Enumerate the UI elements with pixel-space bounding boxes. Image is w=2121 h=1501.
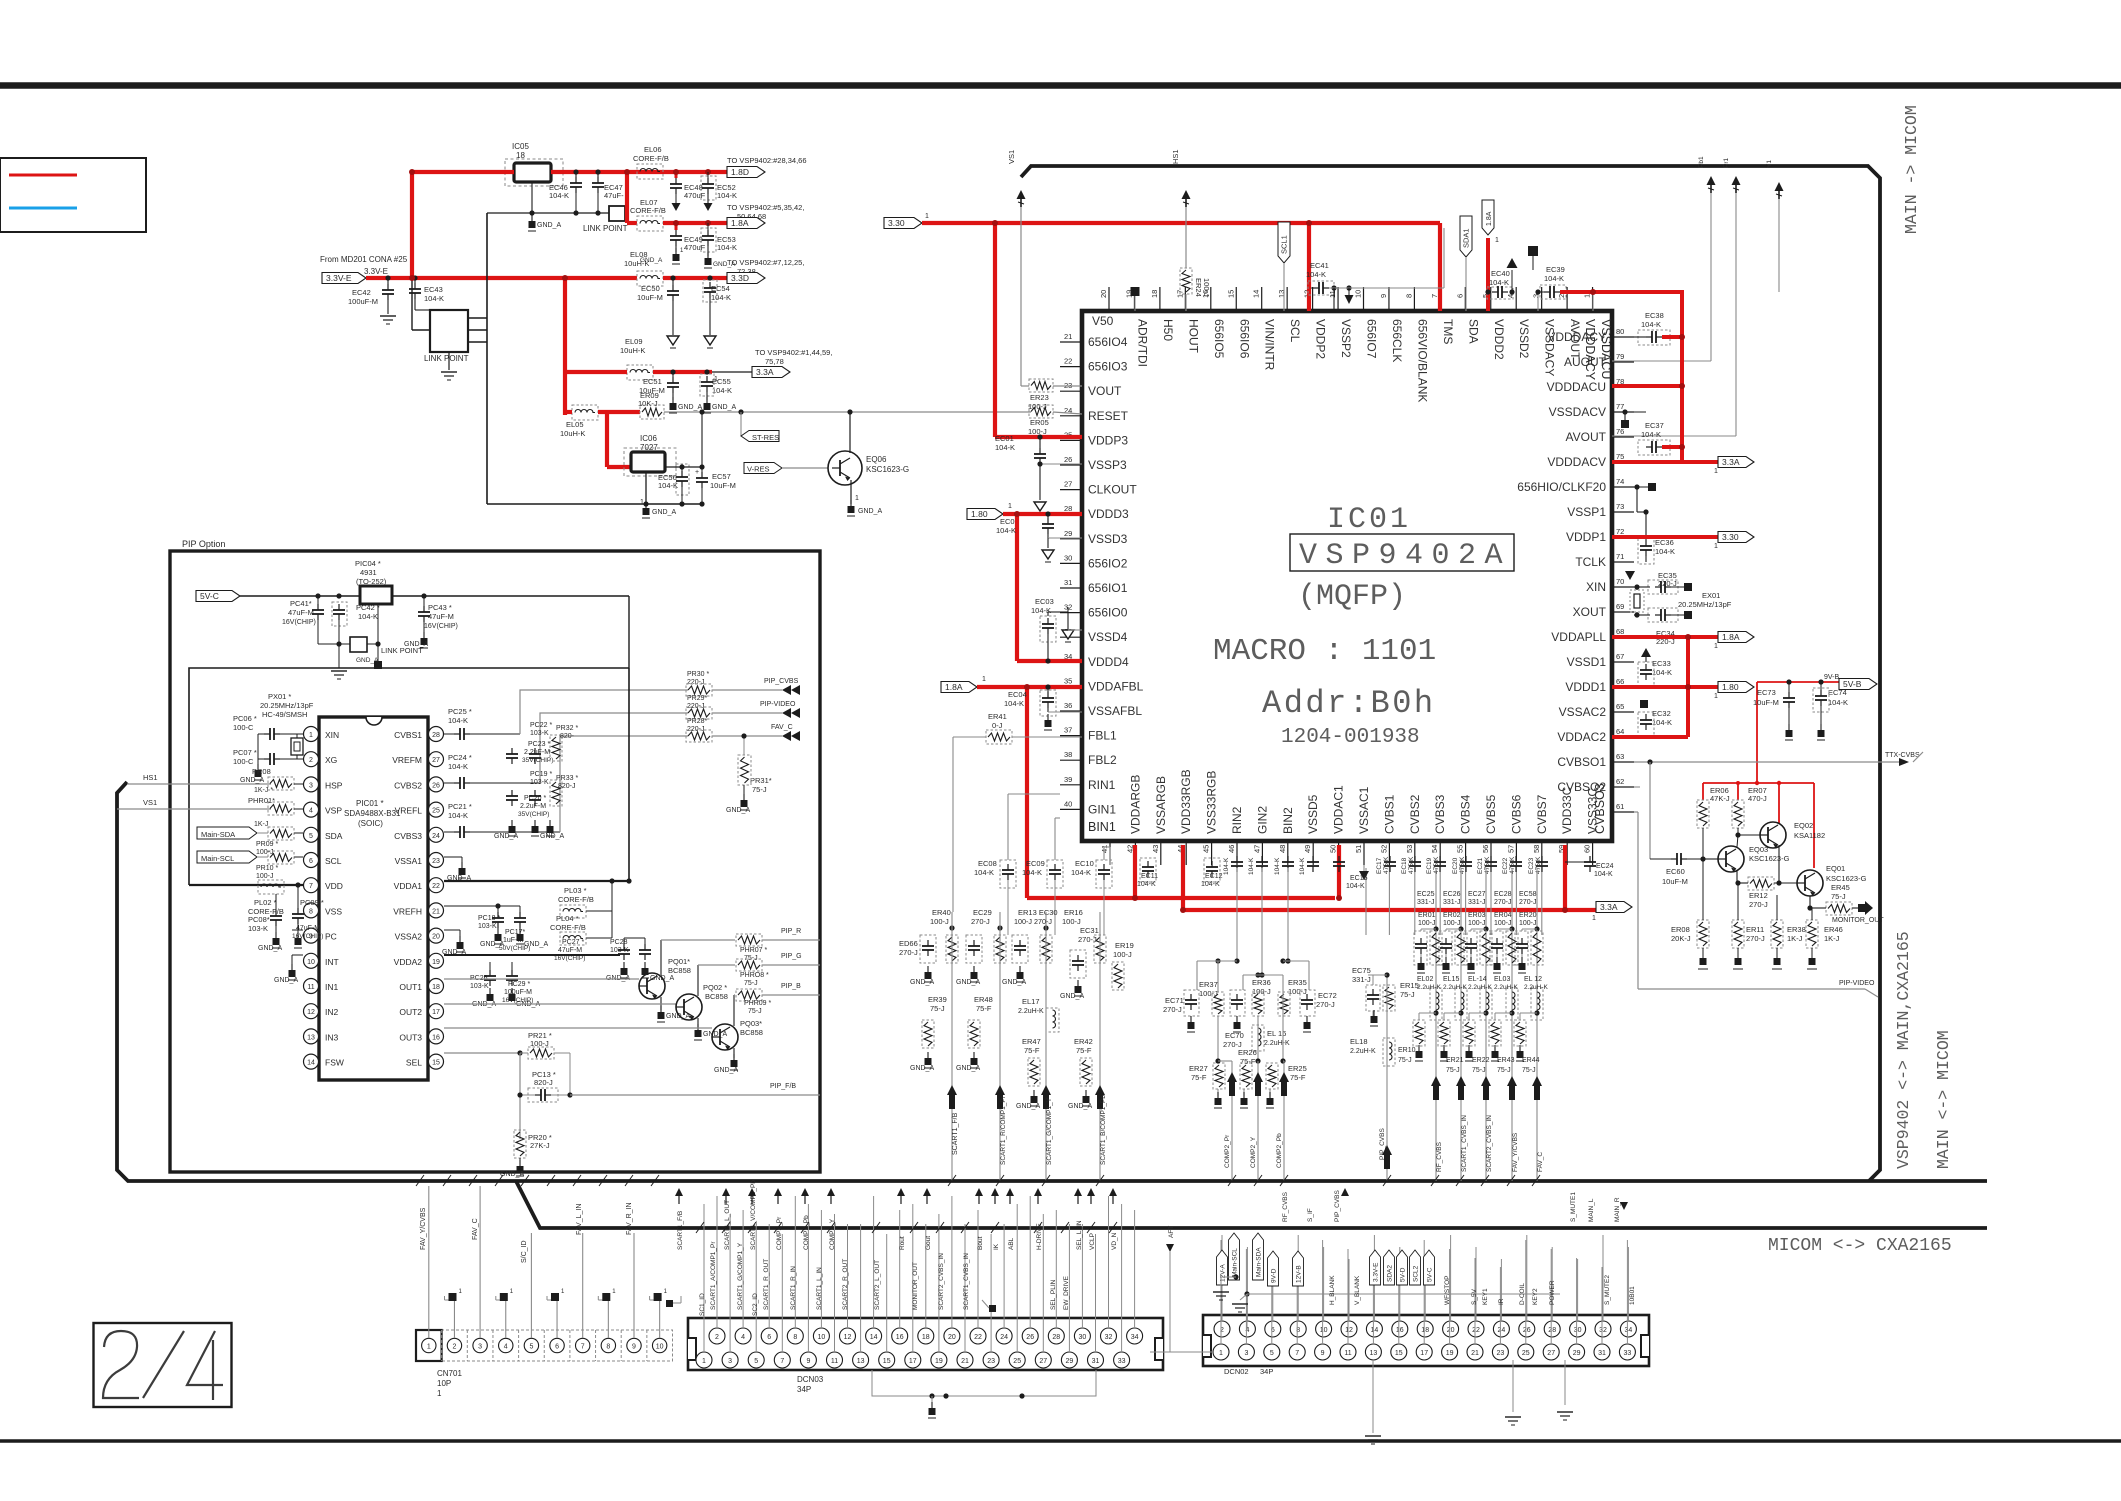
svg-text:100-J: 100-J	[1113, 950, 1132, 959]
svg-text:SCART1_R_OUT: SCART1_R_OUT	[763, 1259, 770, 1310]
svg-text:ER45: ER45	[1831, 883, 1850, 892]
svg-text:PIP-VIDEO: PIP-VIDEO	[760, 701, 796, 708]
svg-text:31: 31	[1598, 1350, 1606, 1357]
svg-text:71: 71	[1616, 552, 1624, 561]
svg-text:VS1: VS1	[143, 798, 157, 807]
svg-text:656IO4: 656IO4	[1088, 335, 1128, 349]
svg-text:GND_A: GND_A	[726, 807, 750, 814]
svg-text:EW_DRIVE: EW_DRIVE	[1063, 1275, 1070, 1310]
svg-text:MAIN_L: MAIN_L	[1588, 1198, 1595, 1222]
IC01 pin 35 VDDAFBL	[1060, 685, 1082, 687]
svg-text:29: 29	[1066, 1358, 1074, 1365]
pin49 arrow	[1359, 871, 1369, 880]
svg-text:+: +	[695, 469, 699, 476]
svg-text:SCART1_R/COMP1_Pr: SCART1_R/COMP1_Pr	[1000, 1095, 1007, 1165]
svg-text:TO VSP9402:#28,34,66: TO VSP9402:#28,34,66	[727, 156, 807, 165]
DCN03 pin 11	[827, 1352, 843, 1368]
IC01 pin 69 XOUT	[1612, 611, 1634, 613]
resistor ER05	[1029, 405, 1053, 418]
svg-text:VSSD1: VSSD1	[1567, 655, 1607, 669]
DCN02 pin 2	[1214, 1321, 1230, 1337]
DCN03 wires up	[716, 1196, 718, 1328]
svg-text:PR28*: PR28*	[687, 718, 708, 725]
svg-text:33: 33	[1118, 1358, 1126, 1365]
DCN02 pin 30	[1570, 1321, 1586, 1337]
svg-text:55: 55	[1456, 845, 1465, 853]
IC01 pin 58 CVBS7	[1541, 841, 1543, 865]
svg-text:PC29 *: PC29 *	[508, 981, 530, 988]
ground GND_A below IC05	[531, 182, 533, 213]
svg-text:13: 13	[857, 1358, 865, 1365]
svg-text:77: 77	[1616, 402, 1624, 411]
svg-text:1.8A: 1.8A	[731, 218, 749, 228]
svg-text:19: 19	[935, 1358, 943, 1365]
svg-text:EQ01: EQ01	[1826, 864, 1845, 873]
svg-text:POWER: POWER	[1549, 1280, 1556, 1305]
svg-text:31: 31	[1092, 1358, 1100, 1365]
flag 12V-A	[1217, 1250, 1228, 1285]
flag 9V-D	[1268, 1251, 1279, 1286]
svg-text:64: 64	[1616, 727, 1624, 736]
svg-text:GND_A: GND_A	[910, 979, 934, 986]
CN701 pin 10	[646, 1330, 648, 1361]
svg-text:10B01: 10B01	[1629, 1286, 1636, 1305]
DCN03 pin 7	[774, 1352, 790, 1368]
svg-text:270-J: 270-J	[1316, 1000, 1335, 1009]
svg-text:INT: INT	[325, 957, 339, 967]
svg-text:BIN2: BIN2	[1281, 807, 1295, 834]
svg-text:0-J: 0-J	[992, 721, 1003, 730]
capacitor EC12	[1204, 858, 1220, 882]
wire red EL05 to IC06	[565, 410, 572, 414]
svg-text:ER01: ER01	[1418, 912, 1436, 919]
DCN02 pin 4	[1239, 1321, 1255, 1337]
IC01 pin 80 VDDDACY	[1612, 336, 1634, 338]
svg-text:COMP2_Pr: COMP2_Pr	[776, 1216, 783, 1250]
IC01 pin 49 VSSD5	[1312, 841, 1314, 865]
svg-text:WF/STOP: WF/STOP	[1444, 1276, 1451, 1306]
svg-text:104-K: 104-K	[996, 526, 1016, 535]
svg-text:VSSDACV: VSSDACV	[1549, 405, 1606, 419]
DCN03 pin 21	[957, 1352, 973, 1368]
svg-text:VOUT: VOUT	[1088, 384, 1122, 398]
svg-text:21: 21	[1471, 1350, 1479, 1357]
wire pin1 stub to red	[1592, 292, 1594, 311]
IC01 pin 50 VDDAC1	[1338, 841, 1340, 865]
svg-text:11: 11	[1328, 290, 1337, 298]
IC01 pin 22 656IO3	[1060, 366, 1082, 368]
svg-text:16: 16	[432, 1034, 440, 1041]
svg-text:470-J: 470-J	[1748, 794, 1767, 803]
DCN02 pin 6	[1265, 1321, 1281, 1337]
svg-text:IC05: IC05	[512, 142, 529, 151]
svg-text:PC22 *: PC22 *	[530, 722, 552, 729]
svg-text:FAV_C: FAV_C	[1537, 1152, 1544, 1172]
IC01 pin 62 CVBSO2	[1612, 786, 1634, 788]
svg-text:4: 4	[1506, 294, 1515, 298]
PIC01 pin 8 VSS	[304, 903, 319, 918]
svg-text:EC03: EC03	[1035, 597, 1054, 606]
svg-text:104-K: 104-K	[1594, 871, 1613, 878]
resistor ER24	[1180, 268, 1192, 294]
wire BIN1 to EC10	[1109, 847, 1111, 865]
flag 3.3A right	[1718, 457, 1754, 468]
svg-text:3.30: 3.30	[1722, 532, 1739, 542]
svg-text:3: 3	[1244, 1350, 1248, 1357]
svg-text:10: 10	[1354, 290, 1363, 298]
svg-text:103-K: 103-K	[248, 924, 268, 933]
svg-text:TO VSP9402:#5,35,42,: TO VSP9402:#5,35,42,	[727, 203, 804, 212]
IC01 pin 31 656IO1	[1060, 587, 1082, 589]
svg-text:RF_CVBS: RF_CVBS	[1282, 1191, 1289, 1222]
svg-text:SCART1_G/COMP1_Y: SCART1_G/COMP1_Y	[737, 1242, 744, 1310]
svg-text:TMS: TMS	[1441, 319, 1455, 344]
IC01 pin 73 VSSP1	[1612, 511, 1634, 513]
svg-text:100-J: 100-J	[1062, 917, 1081, 926]
CVBS filter columns	[1435, 868, 1437, 1181]
svg-text:PHRO8 *: PHRO8 *	[740, 972, 769, 979]
svg-text:EC22: EC22	[1502, 857, 1509, 874]
IC01 pin 67 VSSD1	[1612, 661, 1634, 663]
svg-text:V50: V50	[1092, 314, 1114, 328]
DCN03 pin 22	[970, 1328, 986, 1344]
svg-text:6: 6	[1455, 294, 1464, 298]
svg-text:475-K: 475-K	[1408, 856, 1415, 874]
svg-text:656IO5: 656IO5	[1212, 319, 1226, 359]
svg-text:ABL: ABL	[1008, 1237, 1015, 1250]
svg-text:12: 12	[844, 1334, 852, 1341]
DCN03 pin 12	[840, 1328, 856, 1344]
svg-text:10K-J: 10K-J	[638, 399, 658, 408]
svg-text:10P: 10P	[437, 1379, 451, 1388]
svg-text:SCART2_CVBS_IN: SCART2_CVBS_IN	[1486, 1115, 1493, 1172]
svg-text:EC36: EC36	[1655, 538, 1674, 547]
wire red VDDAC2 pin64	[1612, 735, 1688, 739]
svg-text:PHR07 *: PHR07 *	[740, 947, 768, 954]
wire 5V-C rail	[240, 595, 360, 597]
svg-text:PQ01*: PQ01*	[668, 957, 690, 966]
CN701 pin 1	[422, 1338, 436, 1352]
svg-text:SCART1_CVBS_IN: SCART1_CVBS_IN	[963, 1253, 970, 1310]
wire red EC39 net	[1560, 290, 1683, 294]
svg-text:270-J: 270-J	[1163, 1005, 1182, 1014]
svg-text:25: 25	[1013, 1358, 1021, 1365]
IC01 pin 10 656IO7	[1363, 287, 1365, 311]
svg-text:IN2: IN2	[325, 1007, 339, 1017]
DCN03 pin 8	[787, 1328, 803, 1344]
svg-text:EC74: EC74	[1828, 688, 1847, 697]
svg-text:60: 60	[1583, 845, 1592, 853]
svg-text:VDDP1: VDDP1	[1566, 530, 1606, 544]
svg-text:AFT: AFT	[1168, 1226, 1175, 1238]
IC01 pin 28 VDDD3	[1060, 513, 1082, 515]
svg-text:1: 1	[1714, 693, 1718, 700]
svg-text:PC07 *: PC07 *	[233, 748, 257, 757]
inductor EL05	[572, 405, 598, 420]
svg-text:PR32 *: PR32 *	[556, 725, 578, 732]
svg-text:PC41*: PC41*	[290, 599, 312, 608]
svg-text:PC25 *: PC25 *	[448, 707, 472, 716]
svg-text:104-K: 104-K	[424, 294, 444, 303]
svg-text:27: 27	[1547, 1350, 1555, 1357]
IC01 pin 33 VSSD4	[1060, 636, 1082, 638]
flag 5V-C	[196, 591, 240, 602]
IC01 pin 36 VSSAFBL	[1060, 710, 1082, 712]
flag 1.8A left of IC01	[941, 682, 977, 693]
svg-text:22: 22	[1064, 357, 1072, 366]
svg-text:EC43: EC43	[424, 285, 443, 294]
DCN02 pin 34	[1620, 1321, 1636, 1337]
wire red transistor bias rail	[1703, 782, 1814, 784]
DCN02 pin 21	[1467, 1344, 1483, 1360]
svg-text:104-K: 104-K	[1201, 881, 1220, 888]
svg-text:BIN1: BIN1	[1088, 820, 1116, 834]
svg-text:104-K: 104-K	[1071, 868, 1091, 877]
svg-text:1: 1	[309, 732, 313, 739]
wire VDDA1 5V rail	[444, 880, 629, 882]
svg-text:1204-001938: 1204-001938	[1281, 726, 1420, 749]
svg-text:KSC1623-G: KSC1623-G	[1826, 874, 1867, 883]
wire red 3.30 pin72	[1612, 535, 1718, 539]
svg-text:VDD33RGB: VDD33RGB	[1179, 769, 1193, 834]
svg-text:IC01: IC01	[1327, 503, 1411, 537]
svg-text:SDA: SDA	[1466, 319, 1480, 344]
PIC01 pin 11 IN1	[304, 979, 319, 994]
flag SDA1	[1460, 216, 1472, 257]
svg-text:103-K: 103-K	[530, 730, 549, 737]
flag 5V-C	[1424, 1250, 1435, 1285]
svg-text:ER26: ER26	[1238, 1048, 1257, 1057]
svg-text:13: 13	[307, 1034, 315, 1041]
svg-text:VDDP2: VDDP2	[1314, 319, 1328, 359]
flag V-RES	[744, 463, 782, 474]
svg-text:COMP2_Pb: COMP2_Pb	[1276, 1133, 1283, 1168]
svg-text:80: 80	[1616, 327, 1624, 336]
svg-text:S_IF: S_IF	[1307, 1208, 1314, 1222]
svg-text:SCART1_CVBS_IN: SCART1_CVBS_IN	[1461, 1115, 1468, 1172]
svg-text:ER11: ER11	[1746, 925, 1764, 934]
svg-text:ER43: ER43	[1497, 1057, 1515, 1064]
svg-text:3.3A: 3.3A	[1600, 902, 1618, 912]
svg-text:MONITOR_OUT: MONITOR_OUT	[912, 1262, 919, 1310]
svg-text:SDA9488X-B31: SDA9488X-B31	[344, 809, 401, 818]
svg-text:ER21: ER21	[1446, 1057, 1464, 1064]
svg-text:47: 47	[1252, 845, 1261, 853]
DCN02 pin 10	[1316, 1321, 1332, 1337]
svg-text:3.3V-E: 3.3V-E	[1373, 1262, 1380, 1282]
svg-text:GND_A: GND_A	[540, 833, 564, 840]
svg-text:ER23: ER23	[1030, 393, 1049, 402]
svg-text:331-J: 331-J	[1417, 899, 1435, 906]
svg-text:20: 20	[432, 934, 440, 941]
wire gray pin76 AVOUT to Pr1	[1634, 435, 1640, 437]
connector DCN02	[1203, 1315, 1649, 1366]
svg-text:4: 4	[741, 1334, 745, 1341]
svg-text:57: 57	[1506, 845, 1515, 853]
IC01 pin 77 VSSDACV	[1612, 411, 1634, 413]
svg-text:1K-J: 1K-J	[254, 821, 268, 828]
svg-text:26: 26	[432, 782, 440, 789]
svg-text:30: 30	[1574, 1327, 1582, 1334]
svg-text:D-COIL: D-COIL	[1519, 1283, 1526, 1305]
svg-text:34: 34	[1131, 1334, 1139, 1341]
svg-text:3.30: 3.30	[888, 218, 905, 228]
svg-text:46: 46	[1227, 845, 1236, 853]
DCN03 pin 20	[944, 1328, 960, 1344]
svg-text:EC23: EC23	[1528, 857, 1535, 874]
svg-text:67: 67	[1616, 652, 1624, 661]
svg-text:ER36: ER36	[1252, 978, 1271, 987]
svg-text:SCART1_F/B: SCART1_F/B	[677, 1211, 684, 1250]
svg-text:656HIO/CLKF20: 656HIO/CLKF20	[1517, 480, 1606, 494]
wire VDD rail pip	[189, 884, 303, 886]
svg-text:EC11: EC11	[1141, 873, 1158, 880]
CN701 pin 2	[441, 1330, 443, 1361]
svg-text:EC60: EC60	[1666, 867, 1685, 876]
DCN02 pin 12	[1341, 1321, 1357, 1337]
svg-text:GND_A: GND_A	[524, 941, 548, 948]
svg-text:Y1: Y1	[1766, 160, 1773, 168]
svg-text:10uF-M: 10uF-M	[1662, 877, 1688, 886]
svg-text:VSSDACY: VSSDACY	[1543, 319, 1557, 376]
svg-text:XG: XG	[325, 755, 337, 765]
flag 1.8D left of IC01	[967, 509, 1003, 520]
svg-text:ED66: ED66	[899, 939, 918, 948]
svg-text:70: 70	[1616, 577, 1624, 586]
DCN02 pin 23	[1492, 1344, 1508, 1360]
svg-text:EL17: EL17	[1022, 997, 1040, 1006]
svg-text:FAV_Y/CVBS: FAV_Y/CVBS	[420, 1207, 427, 1250]
DCN03 pin 15	[879, 1352, 895, 1368]
legend box	[0, 158, 146, 232]
svg-text:VSS33RGB: VSS33RGB	[1205, 771, 1219, 834]
DCN03 pin 30	[1074, 1328, 1090, 1344]
svg-text:EC17: EC17	[1376, 857, 1383, 874]
svg-text:3: 3	[309, 782, 313, 789]
svg-text:EC73: EC73	[1757, 688, 1776, 697]
svg-text:1: 1	[1495, 237, 1499, 244]
CN701 gnd stubs	[445, 1299, 455, 1301]
transistor PQ02	[444, 1003, 676, 1005]
DCN03 pin 1	[696, 1352, 712, 1368]
DCN02 pin 20	[1443, 1321, 1459, 1337]
svg-text:14: 14	[870, 1334, 878, 1341]
svg-text:5V-C: 5V-C	[200, 591, 219, 601]
IC01 pin 13 SCL	[1286, 287, 1288, 311]
PIC01 pin 9 PC	[304, 928, 319, 943]
IC01 pin 34 VDDD4	[1060, 661, 1082, 663]
resistor ER23	[1029, 379, 1053, 392]
svg-text:PR29*: PR29*	[687, 695, 708, 702]
flag 3.3V-E	[1370, 1250, 1381, 1285]
svg-text:PC24 *: PC24 *	[448, 753, 472, 762]
IC01 pin 16 656IO5	[1210, 287, 1212, 311]
svg-text:37: 37	[1064, 726, 1072, 735]
svg-text:47uF-M: 47uF-M	[288, 608, 314, 617]
svg-text:EC57: EC57	[712, 472, 731, 481]
svg-text:23: 23	[987, 1358, 995, 1365]
transistor EQ01	[1797, 870, 1823, 896]
svg-text:PC08*: PC08*	[248, 915, 270, 924]
svg-text:ER25: ER25	[1288, 1064, 1307, 1073]
svg-text:12: 12	[307, 1009, 315, 1016]
svg-text:2.2uH-K: 2.2uH-K	[1494, 984, 1519, 991]
wire red VDDAPLL pin68	[1612, 635, 1718, 639]
wire red EC37 to rail	[1662, 445, 1682, 449]
svg-text:EC28: EC28	[1494, 891, 1512, 898]
svg-text:10: 10	[307, 959, 315, 966]
svg-text:IN3: IN3	[325, 1032, 339, 1042]
svg-text:PL02 *: PL02 *	[254, 898, 277, 907]
flag 3.30 rail	[884, 218, 922, 229]
svg-text:PR09 *: PR09 *	[256, 841, 278, 848]
svg-text:PC09 *: PC09 *	[300, 898, 324, 907]
svg-text:EC42: EC42	[352, 288, 371, 297]
IC01 pin 3 VSSDACY	[1541, 287, 1543, 311]
svg-text:H50: H50	[1161, 319, 1175, 341]
wire red riser from IC05 to 3.3V-E rail	[410, 170, 414, 280]
svg-text:16V(CHIP): 16V(CHIP)	[554, 955, 585, 962]
svg-text:ER41: ER41	[988, 712, 1007, 721]
svg-text:104-K: 104-K	[1641, 320, 1661, 329]
IC01 pin 53 CVBS2	[1414, 841, 1416, 865]
PIC01 pin 16 OUT3	[429, 1029, 444, 1044]
svg-text:28: 28	[432, 732, 440, 739]
svg-text:56: 56	[1481, 845, 1490, 853]
IC01 pin 40 GIN1	[1060, 808, 1082, 810]
wire DCN03 to DCN02 pin1	[1150, 1351, 1213, 1353]
svg-text:ER38: ER38	[1787, 925, 1806, 934]
flag SCL1	[1278, 222, 1290, 263]
svg-text:30: 30	[1079, 1334, 1087, 1341]
svg-text:V_BLANK: V_BLANK	[1354, 1275, 1361, 1305]
svg-text:69: 69	[1616, 602, 1624, 611]
svg-text:75-F: 75-F	[1076, 1046, 1092, 1055]
legend red wire sample	[9, 174, 77, 177]
svg-text:ER46: ER46	[1824, 925, 1843, 934]
flag Main-SCL	[1229, 1233, 1240, 1280]
svg-text:VDDAPLL: VDDAPLL	[1551, 630, 1606, 644]
svg-text:EC41: EC41	[1310, 261, 1329, 270]
svg-text:ER12: ER12	[1749, 891, 1768, 900]
IC01 pin 46 RIN2	[1236, 841, 1238, 865]
svg-text:SCART2_L_OUT: SCART2_L_OUT	[874, 1260, 881, 1310]
svg-text:7: 7	[1295, 1350, 1299, 1357]
svg-text:66: 66	[1616, 677, 1624, 686]
svg-text:656IO7: 656IO7	[1365, 319, 1379, 359]
DCN02 pin 25	[1518, 1344, 1534, 1360]
wire GIN1 to EC09	[1055, 817, 1060, 819]
svg-text:32: 32	[1105, 1334, 1113, 1341]
svg-text:VSSAC1: VSSAC1	[1357, 786, 1371, 834]
svg-text:VSS: VSS	[325, 906, 342, 916]
svg-text:GND_A: GND_A	[712, 404, 736, 411]
svg-text:2.2uH-K: 2.2uH-K	[1018, 1008, 1044, 1015]
svg-text:TTX-CVBS: TTX-CVBS	[1885, 752, 1920, 759]
flag 12V-B	[1293, 1251, 1304, 1286]
svg-text:75-J: 75-J	[930, 1004, 945, 1013]
svg-text:VSSAC2: VSSAC2	[1559, 705, 1607, 719]
IC01 pin 12 VDDP2	[1312, 287, 1314, 311]
svg-text:VDDP3: VDDP3	[1088, 433, 1128, 447]
wire black bus to IC06 gnd loop	[486, 213, 488, 504]
svg-text:104-K: 104-K	[1022, 868, 1042, 877]
svg-text:GND_A: GND_A	[240, 777, 264, 784]
svg-text:SCL: SCL	[325, 856, 342, 866]
svg-text:VDDDACY: VDDDACY	[1583, 319, 1597, 381]
IC01 pin 66 VDDD1	[1612, 686, 1634, 688]
svg-text:3.3D: 3.3D	[731, 273, 749, 283]
